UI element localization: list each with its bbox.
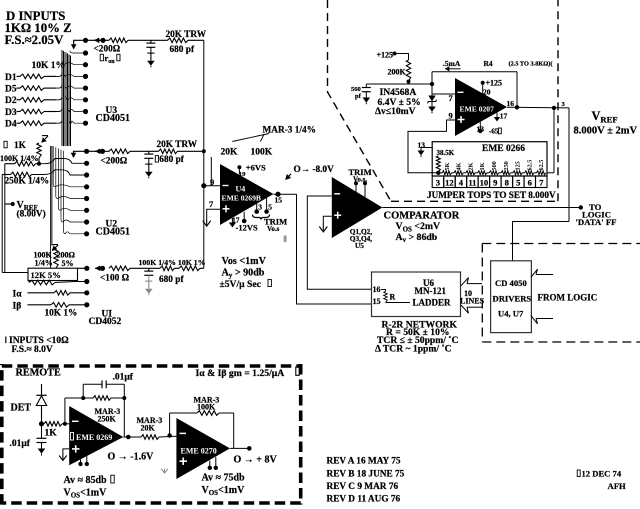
svg-text:500: 500 xyxy=(491,161,498,170)
resistor <200ohm channel-2 xyxy=(109,149,130,154)
svg-text:15: 15 xyxy=(373,297,381,306)
svg-text:20K: 20K xyxy=(141,424,156,433)
svg-text:Av > 86db: Av > 86db xyxy=(396,232,438,244)
svg-text:1K: 1K xyxy=(14,141,27,151)
svg-text:9: 9 xyxy=(449,111,453,121)
svg-text:VOS<1mV: VOS<1mV xyxy=(64,488,108,500)
dashed box REMOTE boundary xyxy=(2,364,301,505)
svg-text:.01μf: .01μf xyxy=(10,439,31,449)
svg-text:6: 6 xyxy=(528,178,533,188)
svg-text:FROM LOGIC: FROM LOGIC xyxy=(538,293,598,303)
DAC box U6 MN-121 LADDER xyxy=(372,272,461,317)
bus arrow 10 LINES upper xyxy=(467,283,482,285)
svg-text:O → -1.6V: O → -1.6V xyxy=(108,452,155,463)
svg-text:1/4%: 1/4% xyxy=(35,259,53,268)
svg-text:(2.5 TO 3.8KΩ)(: (2.5 TO 3.8KΩ)( xyxy=(509,61,553,68)
svg-text:CD4051: CD4051 xyxy=(96,227,130,238)
op-amp EME 0207 xyxy=(455,78,507,136)
svg-text:Δv≤10mV: Δv≤10mV xyxy=(375,106,416,117)
svg-text:CD4051: CD4051 xyxy=(96,113,130,124)
output EME 0270 xyxy=(230,447,249,449)
svg-text:LINES: LINES xyxy=(460,297,485,306)
svg-text:38.5K: 38.5K xyxy=(437,149,455,157)
svg-text:VOS<1mV: VOS<1mV xyxy=(202,485,246,497)
wire VREF node down xyxy=(568,108,570,222)
svg-text:8.000V ± 2mV: 8.000V ± 2mV xyxy=(574,126,638,137)
svg-text:20K TRW: 20K TRW xyxy=(157,140,198,150)
pin 15 output xyxy=(274,193,297,195)
svg-text:Iα & Iβ gm = 1.25/μA: Iα & Iβ gm = 1.25/μA xyxy=(196,368,285,379)
svg-text:4: 4 xyxy=(459,178,464,188)
svg-text:U4, U7: U4, U7 xyxy=(498,309,524,319)
pin 17 -12VS supply xyxy=(231,218,233,223)
resistor network EME 0266 box xyxy=(432,142,547,176)
svg-text:O → + 8V: O → + 8V xyxy=(234,455,278,466)
svg-text:D1: D1 xyxy=(5,73,17,83)
svg-text:'DATA' FF: 'DATA' FF xyxy=(576,217,617,227)
svg-text:(8.00V): (8.00V) xyxy=(17,209,46,220)
svg-text:D4: D4 xyxy=(5,120,17,130)
capacitor 680pf channel-3 xyxy=(148,268,150,271)
svg-text:LADDER: LADDER xyxy=(413,298,452,308)
svg-text:.01μf: .01μf xyxy=(113,373,134,383)
capacitor 680pf channel-2 xyxy=(148,151,150,154)
svg-text:10K 1%: 10K 1% xyxy=(32,61,66,71)
svg-text:F.S.≈2.05V: F.S.≈2.05V xyxy=(5,33,65,47)
svg-text:Vo.s: Vo.s xyxy=(267,225,280,233)
node inverting input EME 0270 xyxy=(167,433,171,437)
svg-text:3: 3 xyxy=(258,203,262,212)
svg-text:REMOTE: REMOTE xyxy=(16,368,61,379)
svg-text:100K: 100K xyxy=(197,403,216,412)
svg-text:20K TRW: 20K TRW xyxy=(166,30,207,40)
svg-text:680 pf: 680 pf xyxy=(170,45,195,55)
svg-text:D2: D2 xyxy=(5,96,17,106)
op-amp EME 0270 xyxy=(176,418,230,479)
arrow from logic upper xyxy=(536,274,553,276)
dashed boundary FROM LOGIC box xyxy=(482,243,640,245)
svg-text:2K: 2K xyxy=(467,162,474,170)
svg-text:11: 11 xyxy=(468,178,476,188)
svg-text:250K 1/4%: 250K 1/4% xyxy=(5,177,50,187)
wire bus tangle U2 xyxy=(53,146,86,187)
wire channel-3 common xyxy=(78,267,87,269)
svg-text:+125: +125 xyxy=(486,79,503,88)
node channel-2 dots xyxy=(84,149,89,154)
resistor R inside U6 xyxy=(381,290,386,292)
svg-text:CD 4050: CD 4050 xyxy=(495,278,527,288)
svg-text:R: R xyxy=(390,293,396,302)
svg-text:100K: 100K xyxy=(251,148,273,158)
svg-text:16: 16 xyxy=(373,285,381,294)
resistor <200ohm r_on channel-1 xyxy=(109,38,128,43)
svg-text:MN-121: MN-121 xyxy=(415,286,447,296)
wire summing node vertical xyxy=(203,40,205,268)
comparator output wire to logic xyxy=(383,207,581,209)
svg-text:D3: D3 xyxy=(5,108,17,118)
svg-text:EME 0266: EME 0266 xyxy=(482,144,525,154)
pin 20 +125 supply xyxy=(481,81,485,85)
svg-text:Iα: Iα xyxy=(13,290,23,300)
wire to summing node xyxy=(178,150,204,152)
svg-text:AFH: AFH xyxy=(608,481,626,491)
svg-text:200K: 200K xyxy=(388,68,407,77)
svg-text:I: I xyxy=(5,335,8,346)
svg-text:4K: 4K xyxy=(456,162,463,170)
svg-text:9: 9 xyxy=(493,178,497,188)
svg-text:3: 3 xyxy=(436,178,440,188)
svg-text:250: 250 xyxy=(503,161,510,170)
resistor <100 ohm channel-3 xyxy=(109,266,130,271)
trimmer 1K xyxy=(4,141,7,148)
svg-text:Vos <1mV: Vos <1mV xyxy=(222,256,267,267)
svg-text:<100 Ω: <100 Ω xyxy=(100,274,130,284)
comparator inverting input wire from U6 pin 16 xyxy=(307,196,371,289)
svg-text:12 DEC 74: 12 DEC 74 xyxy=(582,469,622,479)
svg-text:100K 1/4%: 100K 1/4% xyxy=(0,154,38,163)
svg-text:12K 5%: 12K 5% xyxy=(31,270,61,280)
jumper pin boxes 3 12 4 11 10 9 8 5 6 7 xyxy=(432,176,444,188)
resistor 20K TRW channel-1 xyxy=(168,38,189,43)
node VREF tap xyxy=(5,203,13,205)
arrow from logic lower xyxy=(536,318,553,320)
op-amp EME 0269 remote xyxy=(69,406,123,465)
wire left rail xyxy=(4,164,6,273)
svg-text:MAR-3 1/4%: MAR-3 1/4% xyxy=(263,126,316,136)
svg-text:pf: pf xyxy=(355,93,362,100)
zener diode IN4568A xyxy=(431,72,433,96)
resistor box 12K 5% xyxy=(28,268,78,280)
svg-text:U4: U4 xyxy=(236,185,246,194)
svg-text:16: 16 xyxy=(507,99,515,108)
wire xyxy=(128,39,168,41)
label 680 pf channel-2 xyxy=(155,156,158,163)
node channel-1 dots xyxy=(83,38,88,43)
trim pins EME 0269 xyxy=(80,460,82,463)
svg-text:12: 12 xyxy=(445,178,454,188)
svg-text:CD4052: CD4052 xyxy=(89,317,122,327)
svg-text:5%: 5% xyxy=(62,259,74,268)
node DET junction xyxy=(39,421,44,426)
svg-text:62.5: 62.5 xyxy=(526,160,533,171)
svg-text:REV C 9 MAR 76: REV C 9 MAR 76 xyxy=(327,482,399,492)
svg-text:Δ TCR ~ 1ppm/ ˚C: Δ TCR ~ 1ppm/ ˚C xyxy=(375,344,452,355)
wire bus tangle U3 xyxy=(61,50,63,146)
node output EME 0269 xyxy=(126,435,131,440)
svg-text:+125: +125 xyxy=(377,51,394,60)
svg-text:7: 7 xyxy=(539,178,544,188)
svg-text:D5: D5 xyxy=(5,85,17,95)
comparator non-inverting input ground xyxy=(323,216,332,223)
wire zener node xyxy=(366,83,432,85)
svg-text:62.5: 62.5 xyxy=(538,160,545,171)
svg-text:Av ≈ 85db: Av ≈ 85db xyxy=(64,475,108,486)
node U3 input pins xyxy=(83,50,88,55)
svg-text:F.S.≈ 8.0V: F.S.≈ 8.0V xyxy=(12,345,53,355)
svg-text:125: 125 xyxy=(515,161,522,170)
wire U4 output to U6 pin 15 xyxy=(297,194,372,304)
buffer box CD 4050 DRIVERS U4 U7 xyxy=(491,261,532,333)
wire channel-1 common xyxy=(74,40,109,48)
node UI input pins xyxy=(84,279,89,284)
ground non-inverting input remote 2 xyxy=(164,469,166,474)
svg-text:13: 13 xyxy=(240,203,248,212)
trim pins EME 0270 xyxy=(209,461,211,467)
svg-text:O→ -8.0V: O→ -8.0V xyxy=(294,165,335,175)
resistor 12K second row xyxy=(28,281,30,283)
wire R4 feedback loop xyxy=(432,71,517,73)
svg-text:680 pf: 680 pf xyxy=(159,275,184,285)
svg-text:EME 0269: EME 0269 xyxy=(76,433,112,442)
svg-text:680 pf: 680 pf xyxy=(159,155,184,165)
svg-text:EME 0270: EME 0270 xyxy=(181,446,217,455)
svg-text:8: 8 xyxy=(505,178,510,188)
wire xyxy=(130,150,159,152)
wire to summing node xyxy=(188,39,204,41)
svg-text:Ay > 90db: Ay > 90db xyxy=(222,267,265,279)
svg-text:JUMPER TOPS TO SET 8.000V: JUMPER TOPS TO SET 8.000V xyxy=(427,190,556,200)
svg-text:U5: U5 xyxy=(355,241,364,250)
svg-text:17: 17 xyxy=(500,112,508,121)
comparator U5 Q1-Q4 xyxy=(332,177,383,238)
svg-text:±5V/μ Sec: ±5V/μ Sec xyxy=(220,279,262,290)
op-amp U4 EME 0269B xyxy=(220,164,274,225)
svg-text:5K: 5K xyxy=(444,162,451,170)
svg-text:1K: 1K xyxy=(45,429,58,439)
bus arrow 10 LINES lower xyxy=(467,306,482,308)
pin 17 supply xyxy=(496,113,498,118)
svg-text:DRIVERS: DRIVERS xyxy=(493,294,532,304)
svg-text:Av ≈ 75db: Av ≈ 75db xyxy=(202,473,246,484)
wire channel-2 common xyxy=(74,151,110,157)
svg-text:20: 20 xyxy=(483,88,491,97)
svg-text:REV D 11 AUG 76: REV D 11 AUG 76 xyxy=(327,495,401,505)
svg-text:-12VS: -12VS xyxy=(236,223,258,233)
svg-text:REV A 16 MAY 75: REV A 16 MAY 75 xyxy=(327,457,401,467)
svg-text:560: 560 xyxy=(351,86,361,93)
dashed boundary VREF section xyxy=(328,0,391,201)
ladder resistor chain with taps xyxy=(438,172,442,174)
pin 19 +6VS supply xyxy=(238,167,240,174)
svg-text:10: 10 xyxy=(480,178,489,188)
svg-text:5: 5 xyxy=(268,203,272,212)
svg-text:REV B 18 JUNE 75: REV B 18 JUNE 75 xyxy=(327,470,405,480)
date 12 DEC 74 AFH xyxy=(577,470,580,477)
ground non-inverting input remote 1 xyxy=(63,449,69,455)
svg-text:5: 5 xyxy=(516,178,520,188)
capacitor 680pf channel-1 xyxy=(150,40,152,43)
svg-text:+6VS: +6VS xyxy=(246,163,266,173)
svg-text:15: 15 xyxy=(275,196,283,205)
svg-text:R4: R4 xyxy=(484,59,493,68)
svg-text:250K: 250K xyxy=(98,415,117,424)
svg-text:COMPARATOR: COMPARATOR xyxy=(384,211,460,222)
svg-text:EME 0207: EME 0207 xyxy=(460,105,495,114)
svg-text:DET: DET xyxy=(11,403,32,414)
svg-text:-65: -65 xyxy=(489,128,499,136)
svg-text:<200Ω: <200Ω xyxy=(101,157,128,167)
svg-text:EME 0269B: EME 0269B xyxy=(222,193,261,202)
svg-text:10K 1%: 10K 1% xyxy=(45,309,78,319)
resistor 20K TRW channel-2 xyxy=(159,149,178,154)
svg-text:.5mA: .5mA xyxy=(443,59,461,68)
svg-text:20K: 20K xyxy=(221,148,239,158)
svg-text:Iβ: Iβ xyxy=(13,301,22,311)
svg-text:1K: 1K xyxy=(479,162,486,170)
node U2 input pins xyxy=(84,161,89,166)
svg-text:19: 19 xyxy=(239,171,246,178)
artifact gray blob xyxy=(284,235,287,242)
